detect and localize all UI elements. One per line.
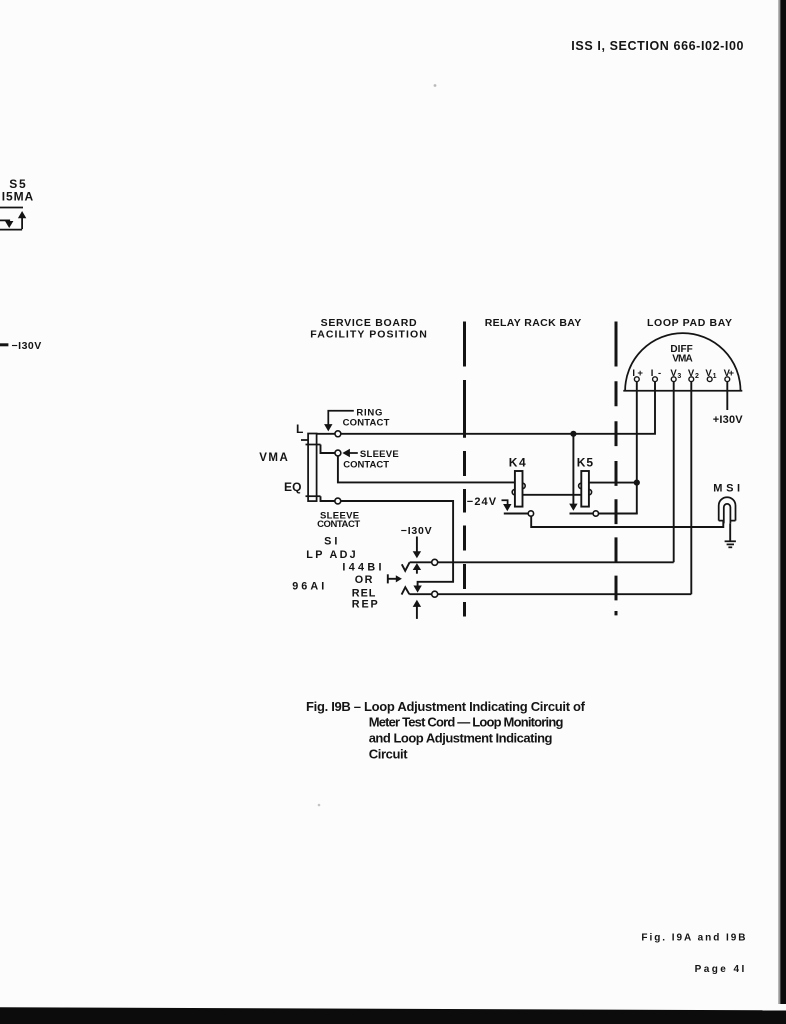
svg-text:and Loop Adjustment Indicating: and Loop Adjustment Indicating — [369, 730, 553, 745]
ground — [725, 541, 736, 547]
svg-text:Fig. I9A and I9B: Fig. I9A and I9B — [641, 933, 745, 944]
svg-text:−24V: −24V — [467, 496, 497, 508]
scan edge bottom bar — [0, 1007, 786, 1024]
S1 make contact chevron — [402, 562, 410, 571]
svg-text:REL: REL — [352, 587, 376, 599]
ring contact circle — [335, 431, 341, 437]
svg-text:I44BI: I44BI — [342, 561, 381, 573]
wire V2 terminal down — [690, 382, 692, 595]
svg-text:EQ: EQ — [284, 480, 302, 494]
svg-text:1: 1 — [713, 373, 717, 380]
label VMA — [259, 452, 288, 464]
wire K5 contact to I+ node — [598, 512, 636, 515]
svg-text:Circuit: Circuit — [369, 746, 409, 761]
svg-text:CONTACT: CONTACT — [343, 459, 389, 470]
lamp MSI — [719, 497, 736, 523]
K4 contact line and circle — [504, 513, 529, 515]
caption Fig 19B — [306, 699, 586, 762]
EQ sleeve contact wire from jack — [321, 496, 336, 501]
meter terminal circles — [634, 377, 729, 382]
meter label DIFF VMA — [670, 344, 692, 365]
svg-text:VMA: VMA — [259, 452, 288, 464]
label RING CONTACT — [343, 407, 390, 428]
svg-text:RELAY RACK BAY: RELAY RACK BAY — [485, 317, 582, 329]
bay separator dashed line 2 — [615, 322, 618, 616]
relay K5 — [579, 471, 592, 507]
S1 break contact bottom up arrow — [413, 600, 421, 619]
label L — [296, 422, 303, 436]
S1 break contact chevron — [402, 587, 410, 594]
jack L / VMA / EQ — [301, 434, 321, 502]
header text — [571, 39, 743, 53]
S1 make contact line — [410, 561, 674, 563]
partial figure 19A: wire under S5 — [0, 207, 23, 209]
partial figure 19A: -130V stub — [0, 340, 41, 352]
svg-text:FACILITY POSITION: FACILITY POSITION — [310, 328, 427, 340]
svg-text:96AI: 96AI — [292, 581, 324, 593]
svg-text:L: L — [296, 422, 303, 436]
wire K4 to K5 coil link — [523, 494, 582, 496]
svg-text:−I30V: −I30V — [12, 340, 42, 352]
svg-text:LP ADJ: LP ADJ — [306, 549, 355, 561]
sleeve label arrow — [342, 449, 357, 457]
svg-text:OR: OR — [355, 574, 373, 586]
relay K4 — [512, 471, 525, 507]
partial figure 19A: up arrow — [18, 211, 26, 229]
svg-text:VMA: VMA — [672, 353, 693, 364]
wire V3 terminal down — [673, 382, 675, 563]
node: junction dot ring wire / K5 armature — [570, 431, 576, 437]
label +130V — [713, 414, 743, 426]
svg-text:K5: K5 — [577, 455, 594, 469]
S1 linkage arrow — [388, 574, 402, 583]
K5 contact line and circle — [570, 513, 594, 515]
S1 make contact up arrow — [413, 563, 421, 574]
wire ring contact to I- — [317, 382, 655, 434]
wire sleeve contact to K4 coil — [338, 456, 515, 483]
bay headers — [310, 317, 732, 341]
svg-text:−I30V: −I30V — [401, 525, 432, 537]
EQ sleeve contact circle — [335, 498, 341, 504]
label K5 — [577, 455, 594, 469]
partial figure 19A: switch S5 15MA label — [2, 177, 34, 203]
svg-text:CONTACT: CONTACT — [317, 519, 360, 530]
bay separator dashed line 1 — [463, 322, 466, 617]
ring contact leader arrow — [324, 411, 354, 432]
footer fig ref — [641, 933, 745, 944]
svg-text:CONTACT: CONTACT — [343, 418, 390, 429]
scan speck — [318, 804, 321, 807]
svg-text:SI: SI — [324, 536, 337, 548]
svg-text:K4: K4 — [509, 456, 526, 470]
svg-text:REP: REP — [352, 599, 378, 611]
svg-text:Fig. I9B – Loop Adjustment Ind: Fig. I9B – Loop Adjustment Indicating Ci… — [306, 699, 586, 714]
K5 armature wire with down arrow — [569, 434, 577, 511]
svg-text:I5MA: I5MA — [2, 189, 34, 203]
S1 break contact circle — [432, 591, 438, 597]
label SLEEVE CONTACT (upper) — [343, 449, 398, 470]
svg-text:+I30V: +I30V — [713, 414, 743, 426]
footer page number — [695, 964, 745, 975]
svg-text:MSI: MSI — [713, 483, 740, 495]
label EQ — [284, 480, 302, 494]
node: junction dot I+ / K5 coil — [634, 480, 640, 486]
label SLEEVE CONTACT (lower) — [317, 510, 360, 530]
label S1 LP ADJ 144BI OR REL REP 96AI — [292, 536, 381, 611]
scan speck — [434, 84, 437, 87]
svg-text:3: 3 — [677, 373, 681, 380]
svg-text:Page 4I: Page 4I — [695, 964, 745, 975]
svg-text:Meter Test Cord — Loop Monitor: Meter Test Cord — Loop Monitoring — [369, 715, 564, 730]
wire I+ terminal down — [636, 382, 638, 514]
label K4 — [509, 456, 526, 470]
wire EQ sleeve to 144BI break contact — [341, 501, 454, 593]
meter terminal labels — [632, 368, 734, 380]
meter dome LOOP PAD BAY — [623, 333, 742, 391]
sleeve contact circle — [335, 450, 341, 456]
label -130V at S1 — [401, 525, 432, 537]
svg-text:ISS I, SECTION 666-I02-I00: ISS I, SECTION 666-I02-I00 — [571, 39, 743, 53]
label -24V with bracket arrow — [467, 496, 512, 511]
scan edge right bar — [778, 0, 786, 1004]
lamp MSI label — [713, 483, 740, 495]
S1 break contact line — [409, 593, 691, 595]
wire K5 coil to I+ node — [589, 482, 637, 484]
wire K4 contact to lamp MSI — [531, 516, 723, 527]
wire V+ to +130V — [726, 382, 728, 410]
svg-text:LOOP PAD BAY: LOOP PAD BAY — [647, 317, 732, 329]
partial figure 19A: wire with down arrow — [0, 220, 22, 229]
S1 make contact circle — [432, 559, 438, 565]
svg-text:2: 2 — [695, 373, 699, 380]
wire lamp to ground — [729, 523, 731, 541]
-130V down arrow — [413, 537, 421, 559]
sleeve contact wire from jack — [321, 445, 336, 454]
svg-text:SERVICE BOARD: SERVICE BOARD — [321, 317, 417, 329]
